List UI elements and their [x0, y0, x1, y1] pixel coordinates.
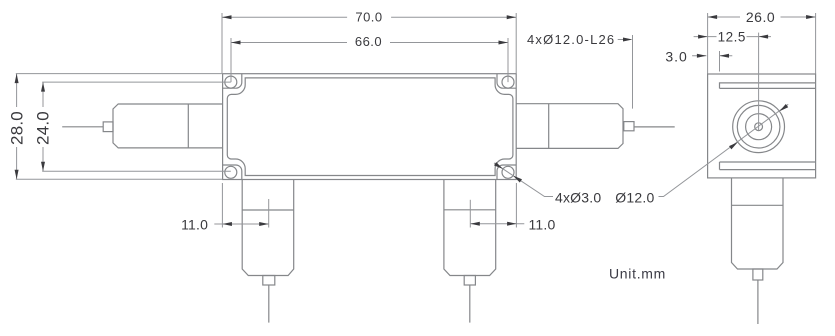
mounting hole TL — [225, 76, 237, 88]
bottom connector right nub — [464, 276, 475, 286]
side view bottom step — [720, 162, 816, 170]
side view fiber — [757, 280, 759, 324]
left collimator divider — [187, 104, 189, 148]
svg-text:4xØ3.0: 4xØ3.0 — [555, 189, 601, 205]
mounting hole BL — [225, 166, 237, 178]
svg-text:12.5: 12.5 — [718, 30, 746, 45]
dim 28.0 arrows — [15, 74, 19, 84]
bottom connector left body — [242, 180, 294, 276]
label L26 extension line — [632, 35, 634, 109]
label O12.0 arrows — [729, 142, 738, 149]
corner ear tab TR — [497, 74, 516, 89]
dim 11.0 left arrows — [222, 222, 232, 226]
left collimator boot nub — [103, 122, 113, 132]
dim 26.0 arrows — [708, 15, 718, 19]
dim 11.0 right centerline — [469, 200, 471, 228]
side view port circle center hole — [755, 123, 763, 131]
dim 11.0 left line — [214, 223, 268, 225]
left collimator body — [113, 104, 223, 148]
mounting hole TR — [502, 76, 514, 88]
dim 12.5 line right — [747, 36, 772, 38]
dim 24.0 arrows — [41, 82, 45, 92]
svg-text:26.0: 26.0 — [746, 9, 775, 25]
side view port circle outer — [733, 101, 785, 153]
bottom connector left division — [242, 209, 294, 211]
body outer rectangle (front view) — [223, 74, 517, 180]
label O12.0 leader — [659, 104, 789, 196]
right collimator body — [516, 104, 623, 149]
dim 12.5 line left — [694, 36, 717, 38]
dim 70.0 extension lines — [222, 13, 516, 73]
svg-text:Ø12.0: Ø12.0 — [615, 189, 654, 205]
right collimator boot nub — [624, 122, 634, 131]
dim 3.0 arrows — [697, 54, 707, 58]
body inner cavity outline — [227, 78, 513, 176]
dim 28.0 extension lines — [16, 74, 223, 180]
label 4xO3.0 arrows — [513, 176, 522, 183]
svg-text:11.0: 11.0 — [528, 217, 555, 233]
mounting hole BR — [502, 166, 514, 178]
bottom connector left fiber — [268, 285, 270, 323]
side view block — [708, 74, 816, 178]
dim 11.0 right line — [470, 223, 524, 225]
svg-text:11.0: 11.0 — [181, 217, 208, 233]
side view top step — [720, 83, 816, 89]
dim 3.0 lines — [692, 55, 732, 57]
dim 11.0 left extension line — [221, 183, 223, 228]
dim 66.0 line — [231, 42, 508, 44]
dim 28.0 line — [16, 74, 18, 180]
svg-text:Unit.mm: Unit.mm — [609, 265, 666, 281]
corner ear tab TL — [223, 74, 242, 89]
dim 24.0 extension lines — [42, 82, 231, 171]
label 4xO3.0 leader — [494, 163, 553, 197]
side view connector nub — [753, 269, 763, 280]
bottom connector right division — [444, 209, 496, 211]
bottom connector right body — [444, 180, 496, 276]
dim 66.0 arrows — [231, 41, 241, 45]
dim 12.5 arrows — [698, 35, 708, 39]
dim 11.0 left centerline — [268, 199, 270, 228]
label L26 leader — [618, 39, 624, 41]
dim 11.0 right extension line — [515, 183, 517, 228]
svg-text:3.0: 3.0 — [665, 49, 687, 65]
svg-text:24.0: 24.0 — [34, 111, 53, 145]
svg-text:28.0: 28.0 — [8, 111, 27, 145]
side view port circle ring3 — [746, 114, 772, 140]
svg-text:4xØ12.0-L26: 4xØ12.0-L26 — [527, 32, 615, 47]
dim 24.0 line — [42, 82, 44, 171]
corner ear tab BL — [223, 165, 242, 180]
dim 70.0 line — [222, 16, 516, 18]
bottom connector left nub — [263, 276, 275, 286]
side view centerline — [758, 33, 760, 131]
svg-text:70.0: 70.0 — [355, 9, 382, 24]
dim 11.0 right arrows — [470, 222, 480, 226]
dim 3.0 extension line — [719, 51, 721, 72]
dim 26.0 line — [708, 16, 816, 18]
right collimator divider — [548, 104, 550, 149]
dim 26.0 extension lines — [708, 13, 816, 74]
side view bottom connector body — [732, 178, 784, 269]
left fiber — [62, 126, 103, 128]
corner ear tab BR — [497, 165, 516, 180]
dim 70.0 arrows — [222, 15, 232, 19]
svg-text:66.0: 66.0 — [355, 34, 382, 49]
side view port circle ring2 — [737, 105, 780, 148]
side view connector division — [732, 204, 784, 206]
right fiber — [634, 126, 675, 128]
dim 66.0 extension lines — [231, 38, 508, 82]
bottom connector right fiber — [469, 285, 471, 323]
